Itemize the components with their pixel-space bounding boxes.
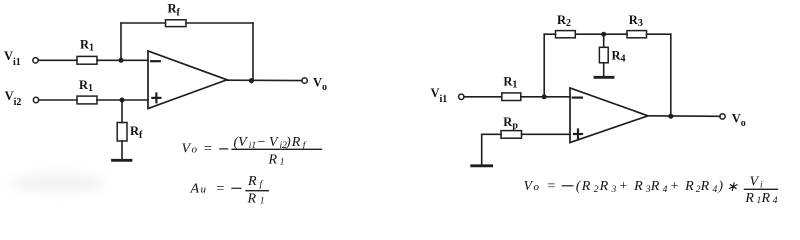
junction output node (right) (668, 114, 673, 119)
resistor R1 (right) (502, 74, 521, 100)
junction non-inverting node (120, 98, 125, 103)
wire Rp to non-inverting input (522, 133, 571, 135)
svg-text:4: 4 (773, 196, 778, 206)
svg-text:o: o (192, 144, 198, 156)
svg-text:4: 4 (713, 185, 718, 195)
wire op-amp output (227, 79, 302, 81)
wire R3 to right vertical (647, 33, 671, 35)
svg-text:(V: (V (234, 135, 249, 150)
resistor R2 (556, 13, 576, 38)
wire feedback right vertical (252, 23, 254, 81)
resistor Rf (feedback) (166, 2, 187, 27)
svg-text:R: R (700, 179, 710, 194)
svg-text:=: = (216, 182, 225, 197)
wire Vi1 to R1 (38, 59, 77, 61)
svg-text:V: V (524, 179, 534, 194)
resistor R4 (599, 47, 625, 64)
wire node down to Rf (121, 100, 123, 123)
junction R2/R3/R4 node (601, 32, 606, 37)
svg-text:R: R (650, 179, 660, 194)
svg-text:=: = (203, 142, 212, 157)
svg-text:R: R (268, 153, 278, 168)
svg-text:R: R (744, 191, 754, 206)
svg-text:u: u (201, 184, 207, 196)
wire ground to Rp (482, 133, 501, 135)
wire top rail to R2 (544, 33, 555, 35)
terminal Vi1 (33, 58, 38, 63)
svg-text:R: R (581, 179, 591, 194)
svg-text:R: R (633, 179, 643, 194)
junction inverting node (119, 58, 124, 63)
svg-text:V: V (269, 135, 279, 150)
svg-text:∗: ∗ (726, 180, 738, 195)
terminal Vo (left) (302, 78, 307, 83)
wire R1 to non-inverting input (97, 99, 148, 101)
svg-text:R: R (761, 191, 771, 206)
terminal Vi2 (33, 97, 38, 102)
svg-text:3: 3 (611, 185, 617, 195)
wire feedback right vertical (right) (670, 34, 672, 116)
svg-text:): ) (285, 135, 291, 150)
wire op-amp output (right) (648, 115, 720, 118)
svg-text:R: R (247, 174, 257, 189)
resistor R1 (lower input) (77, 78, 97, 104)
svg-text:R: R (291, 135, 301, 150)
ground (right circuit) (472, 164, 492, 167)
svg-text:1: 1 (260, 196, 265, 206)
terminal Vi1 (right) (459, 94, 464, 99)
ground (left circuit) (113, 159, 132, 162)
junction inverting node (right) (542, 94, 547, 99)
svg-text:+: + (619, 179, 628, 194)
wire top rail left (121, 22, 166, 24)
wire Vi2 to R1 (39, 99, 77, 101)
formula Vo left circuit (182, 135, 322, 168)
resistor Rp (501, 115, 522, 138)
terminal Vo (right) (720, 114, 725, 119)
wire Vi1 to R1 (right) (464, 96, 502, 98)
svg-text:=: = (547, 179, 556, 194)
svg-text:+: + (670, 179, 679, 194)
svg-text:R: R (684, 179, 694, 194)
svg-text:2: 2 (594, 185, 599, 195)
wire Rp down to ground (481, 134, 483, 165)
resistor R3 (627, 13, 647, 38)
svg-text:V: V (182, 142, 192, 157)
wire Rf to ground (121, 141, 123, 160)
svg-text:R: R (599, 179, 609, 194)
wire feedback left vertical (120, 23, 122, 60)
op-amp U1 (148, 51, 227, 109)
wire feedback left vertical (right) (543, 34, 545, 97)
svg-text:−: − (257, 135, 266, 150)
resistor R1 (upper input) (77, 38, 97, 65)
wire node down to R4 (603, 34, 605, 47)
resistor Rf (to ground) (117, 123, 143, 142)
formula Vo right circuit (524, 175, 778, 206)
junction output node (249, 78, 254, 83)
wire R4 to ground (603, 63, 605, 77)
svg-text:o: o (534, 181, 540, 193)
ground (under R4) (595, 76, 613, 79)
wire top rail right (186, 22, 253, 24)
svg-text:1: 1 (280, 158, 285, 168)
formula Au left circuit (190, 174, 269, 206)
svg-text:R: R (247, 191, 257, 206)
op-amp U2 (570, 88, 648, 143)
wire R1 to inverting input (97, 59, 148, 61)
wire R1 to inverting input (right) (521, 96, 570, 98)
svg-text:4: 4 (663, 185, 668, 195)
svg-text:A: A (190, 182, 200, 197)
wire R2 to R3 (575, 33, 627, 35)
svg-text:V: V (750, 175, 760, 190)
svg-text:): ) (717, 179, 723, 194)
